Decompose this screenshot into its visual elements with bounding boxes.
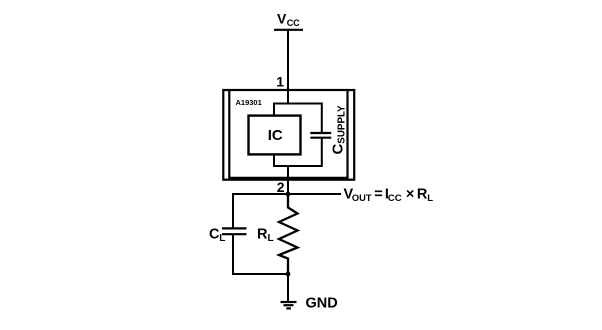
label C SUPPLY [330,105,348,155]
label RL [257,227,274,245]
svg-text:L: L [268,233,274,244]
label A19301 [236,98,262,107]
label IC [268,127,283,144]
wire internal loop left upper [273,103,275,116]
wire bottom horizontal [233,273,288,275]
IC block U1 [249,116,301,155]
svg-text:SUPPLY: SUPPLY [337,105,348,144]
junction bottom node [286,272,291,277]
wire to ground [287,274,289,302]
svg-text:C: C [330,144,347,155]
svg-text:L: L [427,193,433,204]
svg-text:2: 2 [277,179,285,195]
node 2 pin label [277,179,285,195]
capacitor C_SUPPLY [310,133,331,138]
ground symbol [281,302,297,308]
svg-text:IC: IC [268,127,283,144]
svg-text:1: 1 [276,74,284,90]
junction node 2 [286,192,291,197]
svg-text:GND: GND [306,296,338,312]
wire capacitor bottom lead [321,138,323,167]
wire CL bottom lead [232,234,234,275]
svg-text:CC: CC [287,18,300,28]
node 1 pin label [276,74,284,90]
wire internal loop bottom [274,165,322,167]
svg-text:OUT: OUT [352,193,372,203]
label CL [209,227,225,245]
label GND [306,296,338,312]
wire node 2 horizontal [233,193,341,195]
wire internal loop top [274,103,322,105]
capacitor CL [222,228,247,234]
wire CL top lead [232,193,234,228]
svg-text:V: V [277,11,287,27]
label VOUT = ICC x RL [344,187,434,205]
svg-text:CC: CC [388,193,402,204]
wire VCC to node 1 [287,30,289,105]
svg-text:R: R [257,227,268,243]
power VCC rail bar [274,29,303,31]
svg-text:×: × [406,187,414,203]
svg-text:=: = [374,187,382,203]
wire capacitor top lead [321,103,323,134]
wire node1 through box to node 2 [287,166,289,208]
svg-text:R: R [417,187,428,203]
svg-text:A19301: A19301 [236,98,262,107]
wire internal loop left lower [273,154,275,167]
resistor RL [279,194,298,274]
svg-text:L: L [219,233,225,244]
power VCC label [277,11,300,29]
IC package outline A19301 [223,90,354,180]
